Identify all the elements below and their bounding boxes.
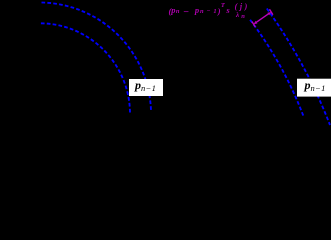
arrowhead left [254, 21, 258, 24]
label box p_{n-1} left [129, 79, 163, 96]
label box p_{n-1} right [297, 79, 331, 97]
formula label [0, 0, 331, 30]
p_{n-1} text right [305, 78, 326, 93]
end bar left on line L [252, 22, 255, 27]
scan ring arc left of right pair [250, 20, 303, 116]
arrowhead right [267, 12, 271, 15]
end bar right on line R [270, 9, 273, 14]
scan ring arc inner left [41, 23, 130, 113]
scan ring arc right of right pair [267, 9, 330, 126]
measurement arrow shaft [252, 9, 273, 27]
p_{n-1} text left [135, 78, 156, 93]
scan ring arc outer left [42, 3, 152, 112]
